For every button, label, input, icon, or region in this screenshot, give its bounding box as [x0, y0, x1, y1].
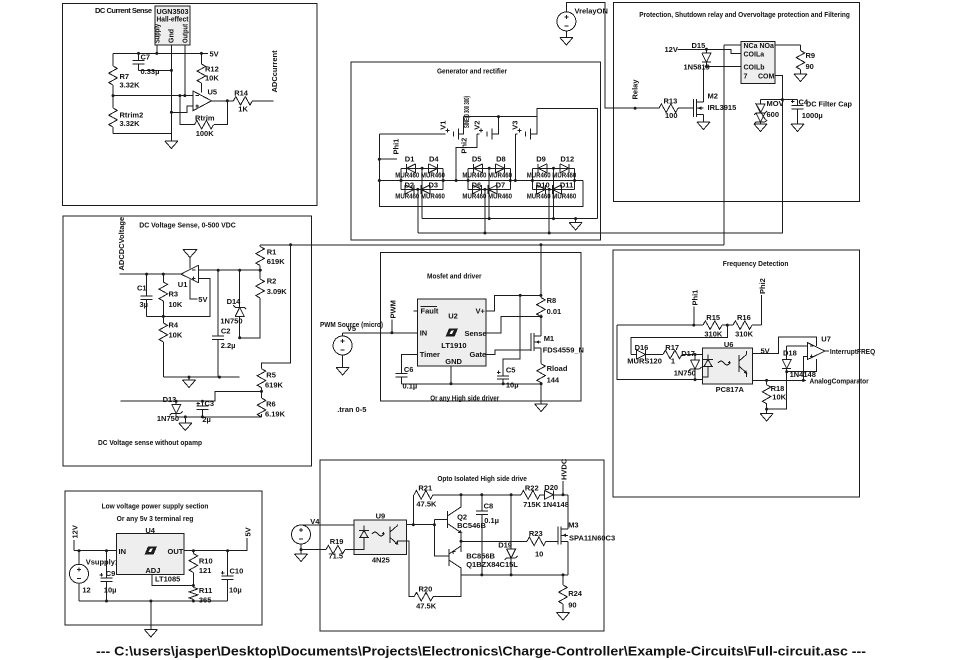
- svg-text:10: 10: [535, 550, 543, 559]
- wire Gnd pin column: [170, 45, 172, 134]
- svg-text:Timer: Timer: [420, 350, 440, 359]
- svg-text:Vsupply1: Vsupply1: [86, 558, 119, 567]
- svg-text:R24: R24: [568, 589, 583, 598]
- IC U8 UGN3503 Hall-effect: [155, 6, 191, 53]
- ground V5: [336, 368, 349, 376]
- wire driver ground rail: [402, 383, 541, 385]
- resistor Rtrim 100K feedback: [180, 96, 227, 138]
- resistor R14 1K: [233, 89, 252, 114]
- svg-text:100: 100: [665, 111, 678, 120]
- svg-text:R2: R2: [267, 277, 277, 286]
- svg-text:D14: D14: [227, 297, 242, 306]
- voltage source V4: [292, 517, 355, 550]
- subcircuit frame box7: [65, 491, 262, 625]
- resistor R18 10K: [762, 380, 786, 409]
- svg-text:IN: IN: [420, 329, 428, 338]
- ground C4: [791, 124, 804, 132]
- wire input rail: [74, 550, 117, 552]
- svg-text:U1: U1: [178, 280, 188, 289]
- relay coil box: [741, 42, 775, 84]
- svg-text:R13: R13: [664, 97, 678, 106]
- svg-text:PC817A: PC817A: [716, 385, 745, 394]
- svg-text:D20: D20: [544, 483, 558, 492]
- svg-text:R12: R12: [205, 65, 219, 74]
- svg-text:V2: V2: [473, 121, 482, 130]
- ground U1 positive rail: [183, 250, 197, 269]
- flag Phi1 box6: [690, 290, 699, 327]
- wire D18 ground leg: [767, 372, 787, 409]
- subcircuit frame box3: [613, 3, 859, 202]
- node dots 5V rail: [137, 52, 140, 55]
- wire emitter tap to R23: [461, 540, 527, 542]
- transistor Q3 BC856B: [449, 546, 519, 575]
- bridge 1 frame: [401, 167, 443, 191]
- wire NCa to bus riser: [724, 44, 741, 46]
- svg-text:2.2µ: 2.2µ: [221, 341, 236, 350]
- svg-text:U2: U2: [448, 312, 458, 321]
- svg-text:Generator and rectifier: Generator and rectifier: [437, 67, 507, 76]
- svg-text:0.1µ: 0.1µ: [484, 516, 499, 525]
- optocoupler U9 4N25: [354, 512, 407, 565]
- svg-text:C6: C6: [404, 365, 414, 374]
- svg-text:Output: Output: [183, 23, 190, 43]
- resistor R6 6.19K: [257, 391, 285, 418]
- wire U9 collector to bases: [407, 524, 435, 526]
- svg-text:ADCDCVoltage: ADCDCVoltage: [117, 217, 126, 271]
- svg-text:D13: D13: [163, 395, 177, 404]
- svg-text:R11: R11: [199, 586, 212, 595]
- zener D13 1N750: [157, 395, 183, 423]
- wire 5V rail: [113, 52, 208, 54]
- svg-text:Phi2: Phi2: [460, 138, 469, 154]
- svg-text:V3: V3: [511, 121, 520, 130]
- svg-text:Supply: Supply: [155, 24, 162, 43]
- label Phi1: [378, 139, 401, 161]
- flag 12V wire: [665, 45, 707, 54]
- svg-text:10K: 10K: [169, 300, 183, 309]
- svg-text:10µ: 10µ: [229, 586, 242, 595]
- svg-text:MUR460: MUR460: [527, 194, 551, 201]
- svg-text:D8: D8: [496, 154, 506, 163]
- svg-text:C7: C7: [141, 52, 151, 61]
- wire lower ground rail: [176, 416, 261, 418]
- diode D7 MUR460: [488, 181, 512, 201]
- svg-text:IRL3915: IRL3915: [708, 103, 737, 112]
- svg-text:Opto Isolated High side drive: Opto Isolated High side drive: [437, 474, 527, 483]
- voltage source V5: [333, 324, 356, 368]
- wire left drop to D16: [617, 325, 703, 380]
- subcircuit frame box1: [63, 4, 318, 206]
- resistor Rtrim2 3.32K: [109, 96, 144, 134]
- wire non-inverting input jog: [171, 106, 193, 112]
- svg-text:0.33µ: 0.33µ: [141, 67, 160, 76]
- wire R5 feed from bus: [262, 245, 291, 369]
- svg-text:310K: 310K: [704, 330, 723, 339]
- capacitor C6 0.1u: [396, 365, 418, 391]
- ground R9: [794, 74, 807, 82]
- svg-text:D2: D2: [405, 181, 415, 190]
- wire bottom rail box7: [79, 600, 228, 602]
- resistor R9 90: [796, 45, 815, 74]
- diode D6 MUR460: [462, 181, 486, 201]
- diode D3 MUR460: [421, 181, 445, 201]
- svg-text:COM: COM: [758, 74, 775, 81]
- svg-text:4N25: 4N25: [372, 556, 390, 565]
- svg-text:MUR460: MUR460: [488, 173, 512, 180]
- svg-text:NCa NOa: NCa NOa: [744, 43, 774, 50]
- voltage source V3: [511, 117, 537, 181]
- svg-text:R4: R4: [169, 321, 179, 330]
- svg-text:COILa: COILa: [744, 52, 765, 59]
- svg-text:47.5K: 47.5K: [416, 499, 437, 508]
- svg-text:Rload: Rload: [547, 364, 568, 373]
- diode D5 MUR460: [462, 154, 486, 179]
- op-amp U5: [193, 88, 217, 111]
- resistor R16 310K: [733, 313, 754, 339]
- wire D18 anode to inverting input: [787, 345, 808, 347]
- wire U7 plus input: [803, 356, 807, 380]
- svg-text:MUR460: MUR460: [395, 173, 419, 180]
- diode D1 MUR460: [395, 154, 419, 179]
- svg-text:LT1910: LT1910: [441, 341, 466, 350]
- svg-text:SINE(0 300 300): SINE(0 300 300): [464, 96, 471, 128]
- svg-text:7: 7: [744, 74, 748, 81]
- svg-text:R22: R22: [525, 484, 539, 493]
- resistor R8 0.01: [537, 296, 562, 317]
- resistor R10 121: [189, 551, 213, 586]
- wire Gate: [486, 350, 531, 355]
- resistor R5 619K: [257, 369, 283, 392]
- svg-text:Phi2: Phi2: [758, 278, 767, 294]
- svg-text:C5: C5: [506, 365, 516, 374]
- svg-text:C8: C8: [484, 501, 494, 510]
- svg-text:InterruptFREQ: InterruptFREQ: [830, 347, 875, 356]
- flag 5V U1 supply: [190, 280, 207, 305]
- ground lower: [179, 417, 192, 431]
- wire top-mid risers to AC rail: [422, 168, 553, 218]
- capacitor C7 0.33u: [133, 52, 172, 76]
- wire inverting input rail: [199, 269, 262, 271]
- svg-text:600: 600: [767, 110, 780, 119]
- resistor R19 71.5: [301, 537, 354, 561]
- subcircuit frame box6: [613, 250, 859, 497]
- svg-text:MOV: MOV: [767, 99, 784, 108]
- svg-text:D11: D11: [560, 181, 573, 190]
- voltage source V2: [456, 117, 498, 181]
- svg-text:D7: D7: [496, 181, 506, 190]
- svg-text:ADCcurrent: ADCcurrent: [270, 50, 279, 93]
- svg-text:6.19K: 6.19K: [265, 410, 286, 419]
- svg-text:1K: 1K: [238, 105, 248, 114]
- svg-text:V5: V5: [347, 324, 356, 333]
- svg-text:U6: U6: [724, 340, 734, 349]
- diode D10 MUR460: [527, 181, 551, 201]
- wire bottom-mid risers: [418, 189, 549, 233]
- svg-text:R9: R9: [806, 51, 816, 60]
- flag HVDC: [560, 458, 569, 495]
- svg-text:C3: C3: [205, 399, 215, 408]
- resistor R12 10K: [197, 53, 219, 92]
- ground generator: [569, 219, 582, 230]
- wire top rail box8: [461, 494, 521, 496]
- svg-text:Relay: Relay: [631, 79, 640, 100]
- resistor Rload 144: [537, 364, 568, 385]
- optocoupler U6 PC817A: [703, 340, 753, 394]
- wire bus drop to R8: [540, 245, 542, 298]
- svg-text:D3: D3: [429, 181, 439, 190]
- svg-text:UGN3503: UGN3503: [157, 9, 189, 16]
- svg-text:Protection, Shutdown relay and: Protection, Shutdown relay and Overvolta…: [639, 10, 850, 19]
- op-amp U1: [178, 265, 199, 289]
- wire AC common rail: [422, 218, 597, 220]
- svg-text:MUR460: MUR460: [421, 173, 445, 180]
- svg-text:R20: R20: [419, 585, 433, 594]
- resistor R7 3.32K: [109, 53, 140, 95]
- ground R18: [760, 409, 773, 421]
- svg-text:Sense: Sense: [465, 329, 487, 338]
- subcircuit frame box8: [320, 460, 604, 631]
- wire Output pin column: [184, 45, 186, 96]
- svg-text:1000µ: 1000µ: [802, 111, 823, 120]
- capacitor C9 10u: [100, 551, 117, 601]
- diode D15 1N5819: [684, 41, 711, 72]
- svg-text:C9: C9: [106, 569, 116, 578]
- flag Phi2 box6: [758, 278, 767, 325]
- svg-text:Phi1: Phi1: [392, 139, 401, 155]
- diode D11 MUR460: [552, 181, 576, 201]
- wire non-inverting input loop: [147, 279, 210, 317]
- svg-text:619K: 619K: [267, 257, 286, 266]
- svg-text:D9: D9: [536, 154, 546, 163]
- wire base rail: [434, 520, 448, 556]
- bridge 2 frame: [468, 167, 510, 191]
- wire output rail: [184, 538, 247, 551]
- transistor M1 FDS4559_N: [531, 317, 584, 364]
- resistor R2 3.09K: [240, 270, 288, 338]
- resistor R11 365: [189, 586, 212, 605]
- svg-text:Gnd: Gnd: [169, 29, 176, 43]
- svg-text:OUT: OUT: [168, 547, 184, 556]
- svg-text:HVDC: HVDC: [560, 458, 569, 480]
- ground R24: [557, 613, 570, 621]
- svg-text:3µ: 3µ: [140, 300, 149, 309]
- capacitor C10 10u: [221, 551, 243, 601]
- svg-text:D18: D18: [783, 349, 797, 358]
- wire sense ground rail: [163, 376, 239, 378]
- wire U9 emitter to R20: [407, 541, 415, 597]
- capacitor C4 1000u DC Filter Cap: [791, 97, 852, 124]
- svg-text:5V: 5V: [198, 295, 207, 304]
- wire MOV / C4 rail: [761, 99, 798, 101]
- resistor R3 10K: [159, 274, 183, 316]
- diode D2 MUR460: [395, 181, 419, 201]
- ground V4: [295, 550, 308, 562]
- wire Sense: [486, 317, 541, 333]
- svg-text:D15: D15: [692, 41, 706, 50]
- svg-text:Low voltage power supply secti: Low voltage power supply section: [102, 502, 209, 511]
- svg-text:365: 365: [199, 596, 212, 605]
- wire COILa: [706, 49, 741, 53]
- wire bus riser to NCa: [723, 45, 725, 245]
- svg-text:D5: D5: [472, 154, 482, 163]
- svg-text:Phi1: Phi1: [690, 290, 699, 306]
- svg-text:D4: D4: [429, 154, 439, 163]
- diode D4 MUR460: [421, 154, 445, 179]
- svg-text:5V: 5V: [210, 49, 219, 58]
- svg-text:D6: D6: [472, 181, 482, 190]
- svg-text:SPA11N60C3: SPA11N60C3: [569, 533, 615, 542]
- subcircuit frame box4: [63, 216, 312, 466]
- wire mid rail: [379, 180, 583, 182]
- svg-text:1N750: 1N750: [157, 414, 179, 423]
- svg-text:100K: 100K: [196, 129, 215, 138]
- capacitor C5 10u: [497, 365, 519, 389]
- svg-text:90: 90: [806, 62, 814, 71]
- resistor R22 715K: [521, 484, 542, 510]
- wire C5 feed: [503, 295, 520, 370]
- svg-text:--- C:\users\jasper\Desktop\D: --- C:\users\jasper\Desktop\Documents\Pr…: [96, 645, 866, 659]
- voltage source VrelayON: [557, 3, 635, 109]
- svg-text:12V: 12V: [665, 45, 678, 54]
- wire main HVDC bus: [260, 244, 724, 246]
- svg-text:MURS120: MURS120: [627, 357, 662, 366]
- transistor Q2 BC546B: [447, 495, 486, 552]
- svg-text:DC Current Sense: DC Current Sense: [95, 6, 152, 15]
- wire right return riser: [537, 109, 598, 219]
- svg-text:DC Filter Cap: DC Filter Cap: [806, 100, 852, 109]
- voltage source Vsupply1 12: [70, 551, 120, 601]
- ground load: [535, 404, 548, 412]
- svg-text:619K: 619K: [265, 380, 284, 389]
- svg-text:Q1BZX84C15L: Q1BZX84C15L: [466, 560, 518, 569]
- svg-text:M2: M2: [708, 92, 718, 101]
- svg-text:D16: D16: [635, 343, 649, 352]
- svg-text:LT1085: LT1085: [155, 575, 180, 584]
- wire R15 R16 rail: [617, 324, 762, 326]
- resistor R24 90: [559, 575, 583, 613]
- svg-text:COILb: COILb: [744, 64, 765, 71]
- transistor M2 IRL3915: [694, 67, 737, 123]
- wire V+ to R8 top: [486, 295, 541, 311]
- svg-text:71.5: 71.5: [329, 552, 344, 561]
- wire U7 output flag InterruptFREQ: [825, 347, 875, 356]
- svg-text:D17: D17: [681, 349, 695, 358]
- svg-text:3.09K: 3.09K: [267, 287, 288, 296]
- svg-text:GND: GND: [445, 357, 462, 366]
- svg-text:VrelayON: VrelayON: [575, 6, 608, 15]
- wire neutral rail: [464, 116, 537, 118]
- svg-text:M1: M1: [544, 334, 554, 343]
- wire collector to 5V rail: [752, 337, 816, 353]
- svg-text:Gate: Gate: [470, 350, 487, 359]
- svg-text:C10: C10: [230, 567, 244, 576]
- svg-text:D10: D10: [536, 181, 550, 190]
- svg-text:R17: R17: [665, 343, 679, 352]
- diode D8 MUR460: [488, 154, 512, 179]
- wire Timer to C6: [402, 354, 418, 373]
- svg-text:IN: IN: [119, 547, 127, 556]
- svg-text:R6: R6: [266, 400, 276, 409]
- capacitor C2 2.2u: [212, 270, 235, 377]
- svg-text:V+: V+: [476, 307, 486, 316]
- svg-text:R23: R23: [529, 529, 543, 538]
- wire to ADCcurrent flag: [252, 100, 273, 102]
- zener D17 1N750: [674, 349, 702, 380]
- svg-text:V1: V1: [439, 121, 448, 130]
- svg-text:.tran 0-5: .tran 0-5: [337, 405, 366, 414]
- svg-text:DC Voltage sense without opamp: DC Voltage sense without opamp: [98, 438, 202, 447]
- wire V5 to IN: [343, 332, 418, 334]
- svg-text:Rtrim: Rtrim: [195, 113, 215, 122]
- node R7/Rtrim2 junction: [112, 94, 115, 97]
- ground box7: [144, 601, 157, 637]
- svg-text:1N750: 1N750: [674, 369, 696, 378]
- svg-text:121: 121: [199, 566, 212, 575]
- zener D19: [498, 495, 517, 575]
- svg-text:10K: 10K: [169, 331, 183, 340]
- wire R15/R16 tap to D16 row: [631, 325, 727, 354]
- svg-text:3.32K: 3.32K: [120, 81, 141, 90]
- svg-text:1N750: 1N750: [220, 316, 242, 325]
- wire output to flag: [120, 273, 181, 275]
- flag PWM: [389, 300, 398, 333]
- svg-text:MUR460: MUR460: [462, 173, 486, 180]
- svg-text:12: 12: [82, 586, 90, 595]
- wire source rail box8: [461, 574, 568, 576]
- svg-text:0.01: 0.01: [547, 307, 562, 316]
- svg-text:D12: D12: [560, 154, 574, 163]
- svg-text:PWM: PWM: [389, 300, 398, 318]
- wire COM: [775, 76, 782, 100]
- svg-text:10µ: 10µ: [506, 381, 519, 390]
- diode D18 1N4148: [782, 346, 816, 381]
- wire GND pin: [450, 366, 452, 384]
- wire Rload to ground: [540, 384, 542, 404]
- wire to inverting input: [113, 95, 193, 97]
- wire divider tap: [121, 391, 262, 401]
- svg-text:Hall-effect: Hall-effect: [157, 17, 190, 24]
- svg-text:5V: 5V: [243, 527, 252, 536]
- zener D14 1N750: [220, 270, 246, 338]
- ground sense rail: [183, 377, 196, 387]
- capacitor C3 2u: [196, 399, 214, 424]
- svg-text:U5: U5: [208, 88, 218, 97]
- svg-text:R14: R14: [234, 89, 249, 98]
- svg-text:R19: R19: [330, 537, 344, 546]
- svg-text:Fault: Fault: [421, 307, 439, 316]
- svg-text:12V: 12V: [71, 525, 80, 538]
- svg-text:R3: R3: [169, 290, 179, 299]
- subcircuit frame box5: [381, 253, 581, 402]
- svg-text:715K: 715K: [523, 500, 542, 509]
- wire op-amp output: [212, 100, 234, 102]
- diode D16 MURS120: [627, 343, 663, 366]
- ground M2: [697, 122, 710, 130]
- wire DC minus rail to relay COM: [418, 100, 783, 233]
- svg-text:3.32K: 3.32K: [120, 119, 141, 128]
- svg-text:DC Voltage Sense, 0-500 VDC: DC Voltage Sense, 0-500 VDC: [139, 221, 236, 230]
- svg-text:MUR460: MUR460: [488, 194, 512, 201]
- svg-text:10K: 10K: [205, 74, 219, 83]
- svg-text:ADJ: ADJ: [145, 566, 160, 575]
- ground MOV: [754, 124, 767, 132]
- diode D9 MUR460: [527, 154, 551, 179]
- wire AnalogComparator rail: [752, 379, 806, 381]
- resistor R15 310K: [703, 313, 723, 339]
- svg-text:C2: C2: [221, 326, 231, 335]
- svg-text:MUR460: MUR460: [552, 173, 576, 180]
- subcircuit frame box2: [351, 62, 601, 240]
